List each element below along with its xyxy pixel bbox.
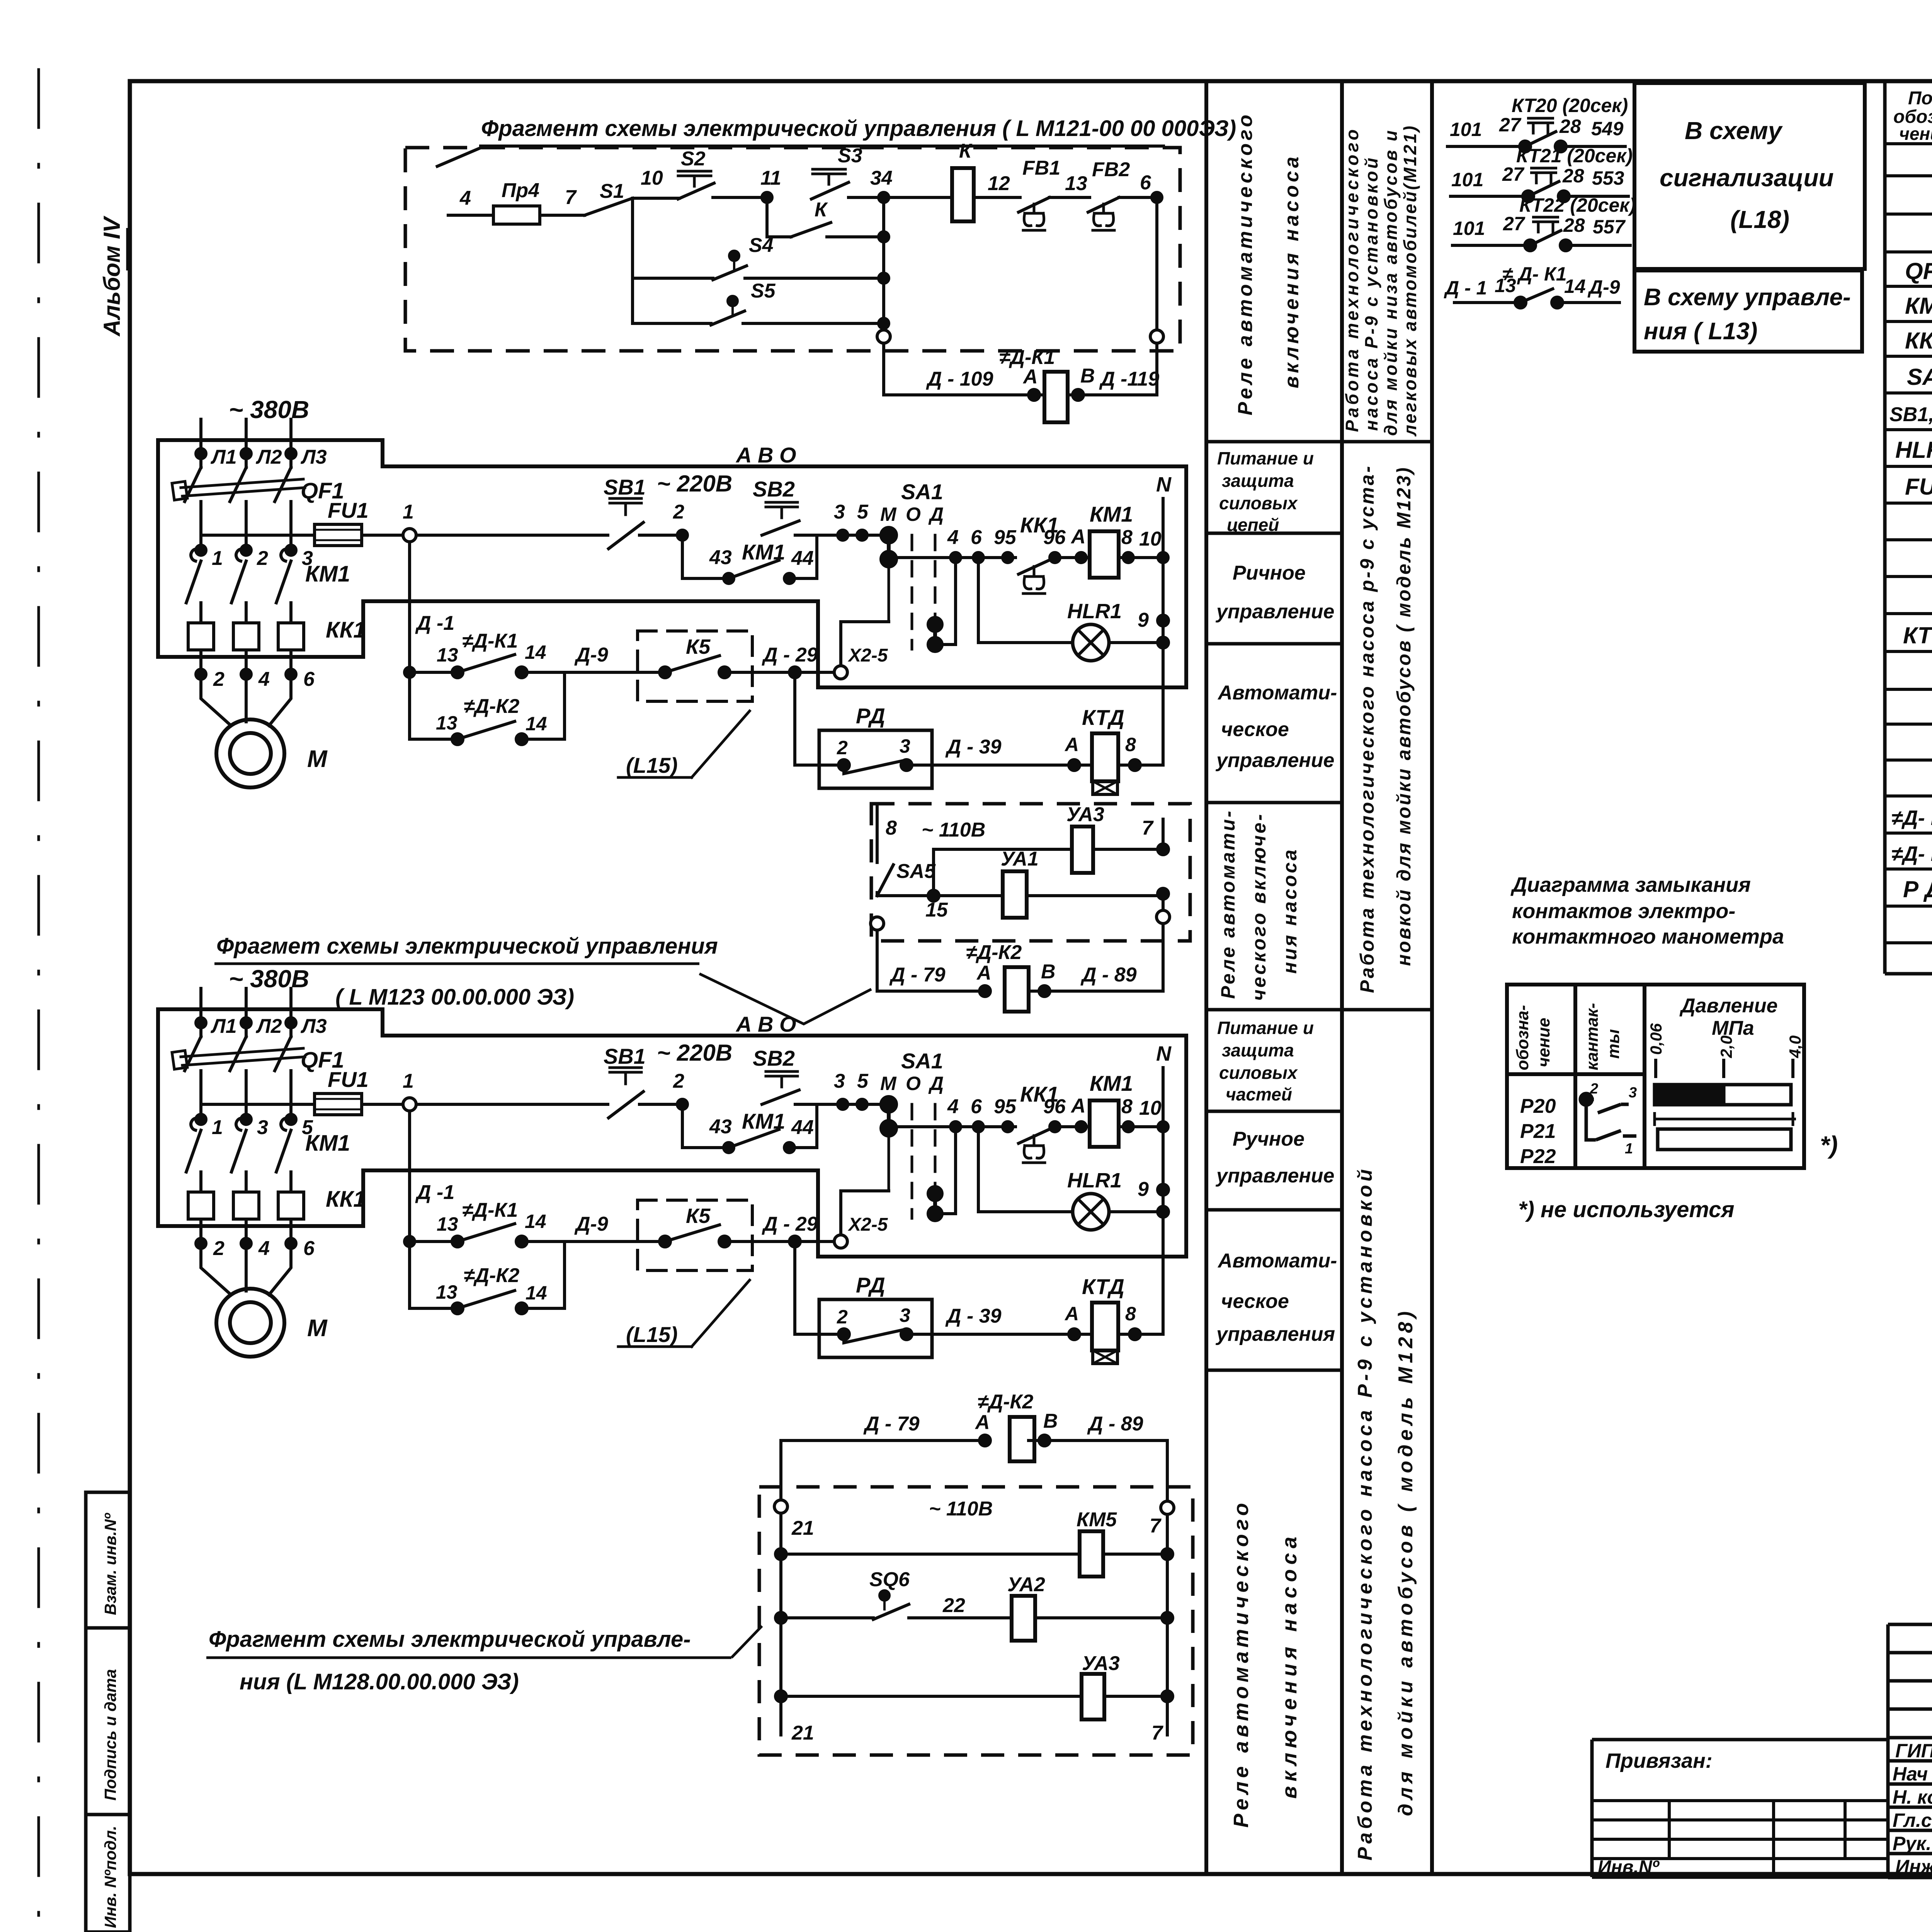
strip cell separators [1206,440,1432,444]
S4/S5 feeder [631,198,634,323]
svg-text:легковых автомобилей(М121): легковых автомобилей(М121) [1400,124,1420,437]
svg-text:Р Д: Р Д [1903,876,1932,902]
svg-text:силовых: силовых [1219,1063,1298,1083]
svg-text:УА1: УА1 [1001,848,1039,870]
rail 15 with coil УА1 [877,894,1163,897]
svg-text:КТ20 (20сек): КТ20 (20сек) [1512,95,1628,116]
svg-text:К: К [959,140,973,162]
motor control circuit 1 (upper) [158,396,1186,794]
svg-text:Альбом IV: Альбом IV [99,215,125,337]
svg-text:Поз.: Поз. [1908,88,1932,109]
parts table rows [1889,185,1932,939]
Диаграмма text block [1510,873,1784,948]
contact sketch [1580,1081,1637,1157]
switch S4 [633,277,713,280]
svg-text:В схему управле-: В схему управле- [1644,284,1851,311]
svg-text:Д - 89: Д - 89 [1087,1413,1143,1435]
svg-text:10: 10 [641,167,663,189]
svg-text:5: 5 [302,1116,313,1139]
box: В схему сигнализации (L18) [1634,83,1865,269]
svg-text:Нач отд: Нач отд [1893,1763,1932,1785]
rows Р20 Р21 Р22 [1520,1095,1556,1168]
svg-text:УА2: УА2 [1007,1573,1045,1596]
svg-text:К: К [815,199,828,221]
svg-text:34: 34 [870,167,893,189]
pushbutton S3 (NC) [813,169,845,184]
svg-text:21: 21 [791,1517,814,1539]
strip2 cell: Работа ... (М121) rotated [1342,124,1420,437]
svg-text:Ручное: Ручное [1233,1128,1304,1150]
svg-text:Работа технологического: Работа технологического [1342,127,1362,432]
pressure bars [1655,1085,1796,1150]
svg-text:3: 3 [1629,1085,1637,1101]
svg-text:насоса Р-9 с установкой: насоса Р-9 с установкой [1361,155,1381,431]
svg-text:новкой для мойки автобусов: новкой для мойки автобусов ( модель М123… [1393,466,1415,966]
title block grid [1592,1624,1932,1877]
parts list table grid [1885,81,1932,974]
svg-text:Пр4: Пр4 [502,179,539,202]
svg-text:контактного манометра: контактного манометра [1512,925,1784,948]
svg-text:защита: защита [1222,1040,1294,1060]
svg-text:2: 2 [257,547,268,570]
svg-text:S1: S1 [600,180,624,202]
svg-text:13: 13 [1495,275,1516,296]
svg-text:КТ Д: КТ Д [1903,622,1932,648]
svg-text:обозна-: обозна- [1513,1005,1532,1070]
svg-text:Д - 79: Д - 79 [889,964,946,986]
svg-text:549: 549 [1591,118,1624,139]
svg-text:Д - 109: Д - 109 [926,368,993,390]
svg-text:КМ5: КМ5 [1077,1509,1117,1531]
svg-text:FB1: FB1 [1022,157,1060,179]
svg-text:≠Д- К1: ≠Д- К1 [1891,806,1932,830]
svg-text:Р20: Р20 [1520,1095,1556,1117]
svg-text:для мойки низа автобусов и: для мойки низа автобусов и [1381,129,1401,436]
timer contact KT22 [1451,217,1632,251]
svg-text:силовых: силовых [1219,493,1298,513]
box: В схему управления (L13) [1634,270,1862,352]
svg-text:2,0: 2,0 [1717,1036,1735,1058]
strip1 cell: Ричное управление [1215,562,1334,623]
manometer diagram table [1507,985,1804,1168]
strip2 cell: Работа ... (модель М128) rotated [1354,1166,1417,1861]
switch S1 [585,198,633,215]
svg-text:А: А [975,1411,990,1434]
fragment 2 title (L M123) [214,934,871,1024]
svg-text:11: 11 [760,167,781,189]
svg-text:7: 7 [1151,1722,1163,1744]
staff table upper empty rows [1888,1653,1932,1738]
contact ≠О-К1 (to L13) [1453,288,1621,308]
svg-text:ния ( L13): ния ( L13) [1644,318,1757,345]
svg-text:НLR1: НLR1 [1895,437,1932,463]
svg-text:Реле автоматического: Реле автоматического [1230,1499,1253,1828]
svg-text:управление: управление [1215,600,1334,623]
right branch wire 6 [1155,197,1158,330]
svg-text:4: 4 [459,187,471,209]
fragment 1 dashed box (L M121) [405,148,1180,351]
svg-text:21: 21 [791,1722,814,1744]
svg-text:S3: S3 [838,145,862,167]
svg-text:кантак-: кантак- [1583,1003,1602,1070]
svg-text:ты: ты [1604,1029,1623,1059]
strip1 cell: Питание и защита силовых частей [1217,1018,1314,1104]
svg-text:КМ1: КМ1 [1905,293,1932,319]
svg-text:0,06: 0,06 [1647,1023,1665,1055]
relay ≠О-К1 row Д-109/Д-119 [884,343,1157,395]
svg-text:7: 7 [565,186,577,209]
svg-text:управления: управления [1215,1323,1335,1345]
привязан box [1592,1740,1888,1877]
strip1 cell: Реле автоматического включения насоса (top) [1234,112,1303,415]
rail with coil УА3 [934,849,1163,896]
svg-text:Работа технологического насоса: Работа технологического насоса р-9 с уст… [1356,464,1378,993]
strip2 cell: Работа ... (модель М123) rotated [1356,464,1415,993]
svg-text:Инж.: Инж. [1895,1856,1932,1878]
svg-text:SA1: SA1 [1907,364,1932,390]
svg-text:*): *) [1820,1131,1838,1159]
svg-text:управление: управление [1215,1165,1334,1187]
svg-text:Реле автоматического: Реле автоматического [1234,112,1257,415]
strip1 cell: Ручное управление [1215,1128,1334,1187]
svg-text:Питание и: Питание и [1217,1018,1314,1038]
svg-text:≠Д-К2: ≠Д-К2 [966,941,1022,964]
wire 10 to S2 [633,197,679,200]
svg-text:13: 13 [1065,172,1087,195]
svg-text:3: 3 [302,547,313,570]
circuit 2 Д-79/Д-89 row to fragment 3 [781,1417,1167,1507]
svg-text:Инв.Nº: Инв.Nº [1598,1857,1660,1878]
svg-text:27: 27 [1502,163,1525,185]
svg-text:Фрагмет схемы электрической: Фрагмет схемы электрической управления [216,934,718,959]
svg-text:Диаграмма замыкания: Диаграмма замыкания [1510,873,1751,896]
svg-text:≠Д- К2: ≠Д- К2 [1891,842,1932,866]
left margin box Взам.инв.№ [86,1492,130,1628]
svg-text:А: А [976,962,992,984]
svg-text:FB2: FB2 [1092,158,1130,181]
svg-text:15: 15 [925,899,948,921]
svg-text:УА3: УА3 [1066,803,1104,826]
left margin box Инв.№ подл. [86,1815,130,1932]
svg-text:контактов электро-: контактов электро- [1512,900,1735,923]
svg-text:ческое: ческое [1221,1290,1289,1313]
thermal element FB1 [1019,197,1049,212]
svg-text:ческого включе-: ческого включе- [1248,812,1270,1001]
svg-text:ческое: ческое [1221,718,1289,741]
pressure scale ticks [1656,1059,1793,1078]
svg-text:S5: S5 [751,280,776,302]
left margin box Подпись и дата [86,1628,130,1815]
fragment 3 labels [791,1498,1163,1744]
svg-text:Питание и: Питание и [1217,448,1314,468]
svg-text:1: 1 [212,1116,223,1139]
svg-text:4,0: 4,0 [1786,1036,1804,1058]
strip1 cell: Реле автоматического включения насоса (middle, rotated) [1217,809,1301,1001]
svg-text:SB1, SB2: SB1, SB2 [1889,403,1932,426]
left connector circle [871,917,884,930]
svg-text:553: 553 [1592,167,1624,189]
svg-text:Реле автомати-: Реле автомати- [1217,809,1239,999]
node 34 [879,192,889,202]
svg-text:7: 7 [1142,817,1154,839]
svg-text:QF1: QF1 [1905,258,1932,284]
rail with coil УА3 [781,1695,1167,1698]
svg-text:~ 110В: ~ 110В [922,819,985,841]
svg-text:7: 7 [1150,1515,1162,1537]
vertical from node 34 down [882,197,885,330]
svg-text:Ричное: Ричное [1233,562,1306,584]
right rail 7 [1161,1501,1174,1514]
circuit 2 breaker terminal labels 1 3 5 [212,1116,313,1139]
svg-text:Р21: Р21 [1520,1120,1556,1143]
svg-text:27: 27 [1503,213,1526,235]
parts table header [1893,88,1932,144]
svg-text:1: 1 [212,547,223,570]
svg-text:ГИП: ГИП [1895,1740,1932,1762]
svg-text:(L18): (L18) [1730,206,1789,233]
svg-text:S2: S2 [681,148,706,170]
svg-text:Д - 89: Д - 89 [1080,964,1137,986]
svg-text:1: 1 [1625,1141,1633,1157]
svg-text:А: А [1022,366,1038,388]
svg-text:Р22: Р22 [1520,1145,1556,1168]
wire node 4 [448,214,493,217]
svg-text:частей: частей [1226,1084,1292,1104]
svg-text:для мойки автобусов ( моде: для мойки автобусов ( модель М128) [1395,1308,1417,1816]
staff table outer [1888,1624,1932,1877]
thermal element FB2 [1088,197,1119,212]
relay coil K [952,168,974,221]
svg-text:14: 14 [1564,276,1586,297]
svg-text:S4: S4 [749,234,774,257]
svg-text:В: В [1043,1410,1058,1432]
strip1 cell: Автоматическое управления [1215,1250,1337,1345]
svg-text:8: 8 [886,817,897,839]
svg-text:6: 6 [1140,172,1151,194]
svg-text:557: 557 [1593,216,1626,238]
vertical strip column 2 (Работа...) [1430,81,1434,1874]
svg-text:сигнализации: сигнализации [1660,164,1834,192]
svg-text:101: 101 [1450,119,1482,140]
svg-text:защита: защита [1222,471,1294,491]
svg-text:В: В [1080,365,1095,387]
fuse Пр4 [493,206,540,224]
svg-text:Д -119: Д -119 [1099,368,1159,390]
svg-text:Д-9: Д-9 [1587,276,1620,298]
node 11 [762,192,772,202]
contact K branch [767,197,791,237]
pushbutton S2 (NC) [678,171,711,186]
svg-text:≠Д-К2: ≠Д-К2 [978,1391,1033,1413]
svg-text:ния (L М128.00.00.000 ЭЗ): ния (L М128.00.00.000 ЭЗ) [240,1669,519,1694]
svg-text:Автомати-: Автомати- [1217,1250,1337,1272]
svg-text:FU1: FU1 [1905,474,1932,500]
svg-text:чение: чение [1534,1018,1553,1067]
svg-text:SA5: SA5 [896,860,936,883]
svg-text:Д - 1: Д - 1 [1444,277,1487,299]
svg-text:2: 2 [1590,1081,1598,1097]
right drop with connector circle [1162,819,1165,910]
svg-text:Гл.спец.: Гл.спец. [1893,1810,1932,1831]
rail with contactor coil КМ5 [781,1553,1167,1556]
svg-text:27: 27 [1499,114,1522,136]
svg-text:22: 22 [942,1594,965,1617]
svg-text:101: 101 [1453,218,1485,239]
limit switch SQ6 and coil УА2 [781,1616,873,1619]
svg-text:Инв. Nºподл.: Инв. Nºподл. [101,1826,119,1928]
timer contact KT21 [1449,168,1630,202]
strip1 cell: Реле автоматического включения насоса (bottom, rotated) [1230,1499,1301,1828]
svg-text:101: 101 [1451,169,1483,190]
timer contact KT20 [1446,118,1627,152]
svg-text:Н. контр: Н. контр [1893,1786,1932,1808]
svg-text:( L М123 00.00.000 ЭЗ): ( L М123 00.00.000 ЭЗ) [335,985,574,1010]
strip1 cell: Автоматическое управление [1215,682,1337,772]
switch SA5 [877,804,893,896]
svg-text:28: 28 [1559,116,1581,137]
motor control circuit 2 (lower, M128) [158,965,1186,1364]
switch S5 [633,322,711,325]
svg-text:включения насоса: включения насоса [1281,154,1303,388]
fragment 2 dashed box [871,804,1190,941]
svg-text:Автомати-: Автомати- [1217,682,1337,704]
svg-text:КК1: КК1 [1905,328,1932,354]
svg-text:~ 110В: ~ 110В [929,1498,993,1520]
svg-text:Давление: Давление [1679,995,1778,1017]
fragment 1 labels [459,140,1159,390]
fragment 2 labels [886,803,1154,986]
vertical strip column 1 (Реле...) [1204,81,1208,1874]
svg-text:Привязан:: Привязан: [1605,1749,1713,1772]
svg-text:Д - 79: Д - 79 [863,1413,920,1435]
svg-text:В схему: В схему [1685,117,1783,145]
svg-text:12: 12 [988,172,1010,195]
fragment 1 title [436,116,1236,167]
svg-text:28: 28 [1562,165,1584,187]
svg-text:В: В [1041,961,1056,983]
svg-text:SQ6: SQ6 [869,1568,910,1591]
fragment 3 dashed box (M128) [759,1487,1193,1755]
svg-text:Подпись и дата: Подпись и дата [101,1669,119,1801]
svg-text:*) не используется: *) не используется [1518,1197,1735,1222]
svg-text:Работа технологического насо: Работа технологического насоса Р-9 с уст… [1354,1166,1376,1861]
svg-text:чение: чение [1899,124,1932,144]
svg-text:Рук. гр.: Рук. гр. [1893,1833,1932,1854]
svg-text:УА3: УА3 [1082,1652,1120,1675]
svg-text:Фрагмент схемы электрической: Фрагмент схемы электрической управления … [481,116,1236,141]
circuit 1 breaker terminal labels 1 2 3 [212,547,313,570]
wire Д-79 / coil ≠О-К2 / wire Д-89 [877,990,1163,993]
svg-text:3: 3 [257,1116,268,1139]
paper left dash-dot edge [37,70,40,1917]
svg-text:Фрагмент схемы электрической: Фрагмент схемы электрической управле- [209,1627,691,1652]
svg-text:управление: управление [1215,749,1334,772]
svg-text:Взам. инв.Nº: Взам. инв.Nº [101,1513,119,1615]
left rail 21 [774,1500,787,1513]
svg-text:цепей: цепей [1227,515,1279,535]
svg-text:КТ22 (20сек): КТ22 (20сек) [1519,194,1636,216]
svg-text:включения насоса: включения насоса [1278,1532,1301,1799]
svg-text:28: 28 [1563,214,1585,236]
staff rows [1888,1761,1932,1854]
fragment 3 title (L M128) [206,1626,762,1694]
svg-text:КТ21 (20сек): КТ21 (20сек) [1516,145,1633,167]
strip1 cell: Питание и защита силовых цепей [1217,448,1314,535]
svg-text:ния насоса: ния насоса [1279,848,1301,974]
